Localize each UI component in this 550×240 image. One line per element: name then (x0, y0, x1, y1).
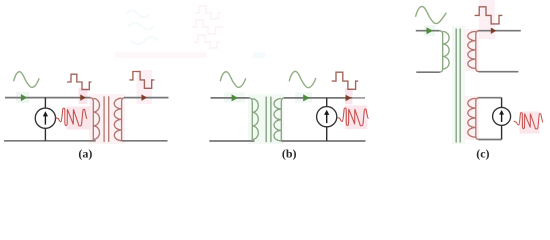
red square wave SW1 (a) (67, 74, 92, 89)
wire: (c) current-source bottom stub (501, 125, 503, 140)
wire: (b) top-right horizontal (284, 97, 352, 99)
wash behind green arrow B2 (b) (295, 93, 312, 103)
wash behind square wave SW2 / red arrow A2 (a) (137, 70, 153, 104)
jagged magnetizing-current waveform (c) (514, 113, 543, 129)
red current arrow on (c) upper-right wire (491, 28, 497, 34)
svg-text:(a): (a) (78, 146, 92, 160)
transformer T3 (c): primary winding (green) (439, 31, 449, 72)
svg-text:(c): (c) (476, 146, 489, 160)
green sine source symbol (c) (416, 6, 447, 23)
svg-text:(b): (b) (282, 146, 297, 160)
wash behind transformer core (c) (452, 26, 465, 144)
green sine symbol (b) right (289, 71, 316, 87)
wire: (b) bottom-left horizontal (209, 140, 254, 142)
wire: (c) current-source top stub (501, 98, 503, 108)
current source I2 arrow (b) (324, 110, 329, 123)
green current arrow on (c) upper-left wire (427, 27, 433, 34)
transformer T2 (b): secondary winding (green) (274, 98, 285, 141)
wire: (b) current-source bottom stub (326, 127, 328, 142)
transformer T1 (a): core lines (103, 96, 105, 142)
wash behind green arrow (a) (16, 92, 29, 103)
red square wave (c) (475, 7, 503, 24)
wash behind red arrow / square wave (c) (479, 0, 495, 39)
wire: (c) bottom loop bottom horizontal (479, 139, 502, 141)
wire: (c) top-right lower horizontal (479, 71, 519, 73)
transformer T3 (c): core lines (shared tall core) (455, 29, 457, 143)
wire: (c) top-left lower horizontal (416, 71, 440, 73)
green sine source symbol (b) left (220, 72, 246, 88)
ghost artifact cyan smudge (253, 52, 265, 58)
current source I1 arrow (a) (43, 111, 48, 124)
wash behind transformer (b) (248, 94, 284, 144)
red current arrow A1 on (a) top wire (80, 94, 86, 100)
red current arrow on (b) right wire (346, 95, 352, 101)
wire: (c) top-right upper horizontal (479, 30, 521, 32)
wire: (b) bottom-right horizontal (281, 140, 365, 142)
wire: (a) current-source bottom stub (44, 128, 46, 141)
jagged magnetizing-current waveform (a) (56, 108, 88, 126)
wire: (b) current-source top stub (326, 98, 328, 107)
ghost artifact cyan sine fragments (126, 11, 158, 45)
current source I2 circle (b) (317, 107, 337, 127)
wire: (a) top-left horizontal (5, 97, 90, 99)
wire: (c) bottom loop top horizontal (479, 97, 502, 99)
transformer T2 (b): primary winding (green) (249, 98, 259, 141)
wash behind transformer (a) (89, 94, 125, 144)
wire: (a) bottom-left horizontal (4, 140, 96, 142)
wire: (a) top-right horizontal (124, 97, 169, 99)
wash behind green arrow (c) (424, 25, 435, 36)
green current arrow B2 on (b) right wire (303, 94, 309, 101)
wire: (a) current-source top stub (44, 98, 46, 109)
green current arrow on (a) top wire (21, 94, 27, 101)
wire: (c) top-left upper horizontal (416, 30, 440, 32)
wash behind red windings (c) (464, 29, 479, 71)
green sine source symbol (a) (14, 72, 40, 88)
current source I3 arrow (c) (499, 110, 504, 122)
current source I3 circle (c) (493, 107, 511, 125)
red current arrow A2 on (a) right wire (142, 94, 148, 100)
transformer T3 (c): secondary winding top (red) (468, 31, 479, 72)
red square wave (b) (332, 72, 359, 89)
wash behind jagged waveform (b) (345, 106, 367, 130)
wire: (a) bottom-right horizontal (122, 140, 168, 142)
transformer T3 (c): secondary winding bottom (red) (468, 98, 479, 140)
ghost artifact pink square fragments (192, 6, 223, 48)
ghost artifact pink smudge bar (115, 52, 207, 58)
red square wave SW2 (a) (129, 72, 154, 89)
transformer T2 (b): core lines (265, 97, 267, 143)
green current arrow B1 on (b) left wire (232, 94, 238, 101)
wash behind jagged waveform (c) (520, 112, 540, 134)
wire: (b) top-left horizontal (211, 97, 250, 99)
wash behind square wave SW1 and red arrow (a) (79, 88, 88, 104)
current source I1 circle (a) (35, 108, 55, 128)
transformer T1 (a): primary winding (red) (90, 98, 100, 141)
wash behind green arrow B1 (b) (224, 93, 245, 103)
wash behind red arrow (b) (345, 88, 353, 104)
transformer T1 (a): secondary winding (red) (114, 98, 125, 141)
wash behind jagged waveform (a) (67, 107, 92, 130)
jagged magnetizing-current waveform (b) (337, 108, 369, 126)
